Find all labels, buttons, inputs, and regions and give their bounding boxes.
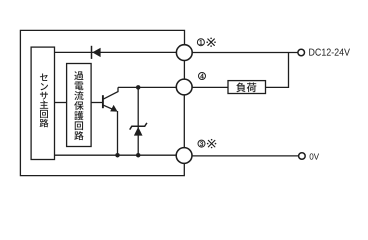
wire: emitter down to 0V rail xyxy=(117,111,119,155)
wire: enclosure right edge between terminal 4 and terminal 3 xyxy=(183,95,185,148)
label: circled 4 for terminal 4 xyxy=(199,73,206,80)
zener diode ZD1 cathode bar (z-bar) xyxy=(130,123,147,130)
wire: zener branch vertical xyxy=(137,87,139,155)
0V terminal circle xyxy=(299,153,306,160)
terminal 1 (brown, +V) circle xyxy=(176,45,192,61)
wire: protection box to transistor base xyxy=(91,102,102,104)
label: 0V xyxy=(310,153,319,159)
junction: emitter to 0V rail xyxy=(115,153,120,158)
terminal 4 (black, output) circle xyxy=(176,79,192,95)
label: reference mark for terminal 3 xyxy=(207,139,216,148)
label: circled 3 for terminal 3 xyxy=(198,140,205,147)
transistor Q1 emitter lead xyxy=(103,105,116,111)
wire: collector to terminal 4 xyxy=(118,86,176,88)
label: reference mark for terminal 1 xyxy=(206,38,215,47)
block: sensor main circuit (センサ主回路) xyxy=(31,47,54,159)
sensor enclosure outline (left/top/bottom) xyxy=(20,30,184,175)
load box (負荷) xyxy=(228,81,266,94)
zener diode ZD1 anode triangle xyxy=(134,127,143,136)
terminal 3 (blue, 0V) circle xyxy=(176,148,192,164)
transistor Q1 emitter arrowhead xyxy=(110,105,117,112)
wire: load to +V drop xyxy=(266,53,289,88)
DC supply terminal circle xyxy=(298,49,305,56)
label: 負荷 (load) xyxy=(236,83,256,93)
wire: sensor box to protection box xyxy=(55,102,67,104)
wire: terminal 1 to DC supply terminal xyxy=(192,52,298,54)
label: 過電流保護回路 (overcurrent protection circuit), vertical xyxy=(74,71,83,140)
diode D1 (anode triangle) xyxy=(92,48,100,57)
label: DC12-24V xyxy=(309,49,350,56)
wire: enclosure right edge between terminal 1 and terminal 4 xyxy=(183,60,185,79)
label: センサ主回路 (sensor main circuit), vertical xyxy=(40,74,49,128)
wire: terminal 4 to load xyxy=(192,86,228,88)
transistor Q1 base bar xyxy=(102,95,104,108)
label: circled 1 for terminal 1 xyxy=(197,39,204,46)
junction: zener to 0V rail xyxy=(136,153,141,158)
transistor Q1 collector lead xyxy=(103,87,118,99)
diode D1 (cathode bar) xyxy=(91,46,93,59)
junction: zener to collector wire xyxy=(136,85,141,90)
wire: +V rail from sensor box to terminal 1 xyxy=(55,51,177,53)
wire: 0V rail from sensor box to terminal 3 xyxy=(55,154,177,156)
block: overcurrent protection circuit (過電流保護回路) xyxy=(67,64,92,147)
wire: terminal 3 to 0V terminal xyxy=(192,155,299,157)
